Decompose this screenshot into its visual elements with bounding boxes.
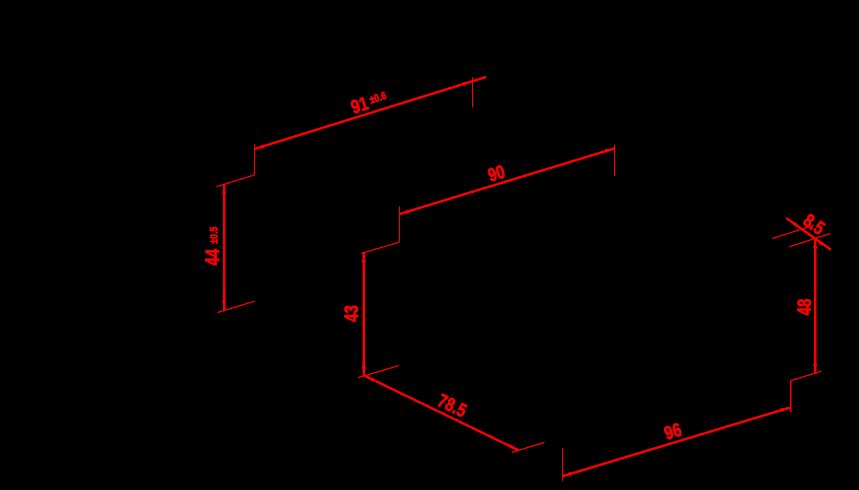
dimension 48 line xyxy=(814,239,816,373)
arrowhead 91 left xyxy=(254,144,264,151)
dimension 78.5 line xyxy=(365,376,518,450)
arrowhead 96 right xyxy=(780,406,790,413)
dimension 90 line xyxy=(400,149,615,215)
extension line 90 left vertical xyxy=(399,207,401,242)
arrowhead 8.5 lower outside xyxy=(814,237,824,246)
extension line 96 right vertical xyxy=(790,381,792,412)
arrowhead 48 top xyxy=(813,239,817,249)
dimension 43 line xyxy=(363,253,365,376)
extension line jog 90-43 diagonal xyxy=(362,242,400,253)
extension line jog 91-44 diagonal xyxy=(217,175,255,187)
arrowhead 43 top xyxy=(362,252,366,262)
arrowhead 8.5 upper outside xyxy=(793,222,803,231)
arrowhead 90 left xyxy=(399,209,409,216)
extension line 43 bottom / 78.5 left diagonal xyxy=(358,366,399,378)
svg-text:±0.5: ±0.5 xyxy=(209,226,221,243)
arrowhead 78.5 left xyxy=(364,374,374,382)
arrowhead 91 right xyxy=(463,79,473,86)
dimension 8.5 line xyxy=(786,218,831,250)
dimension 96 line xyxy=(563,408,790,477)
arrowhead 48 bottom xyxy=(813,364,817,374)
arrowhead 43 bottom xyxy=(362,367,366,377)
extension line 91 left vertical xyxy=(254,144,256,175)
svg-text:43: 43 xyxy=(340,305,362,322)
extension line 48 top / 8.5 lower diagonal xyxy=(789,234,830,247)
extension line 44 bottom diagonal xyxy=(218,301,255,312)
svg-text:44: 44 xyxy=(201,248,223,265)
extension line 8.5 upper diagonal xyxy=(772,225,814,238)
svg-text:48: 48 xyxy=(793,298,815,315)
arrowhead 78.5 right xyxy=(509,444,519,452)
extension line 91 right vertical xyxy=(471,77,473,108)
arrowhead 96 left xyxy=(562,472,572,479)
extension line 78.5 right diagonal xyxy=(512,442,545,452)
arrowhead 44 top xyxy=(222,184,226,194)
extension line 96 left vertical xyxy=(561,449,563,481)
extension line 90 right vertical xyxy=(614,145,616,176)
extension line jog 96-48 diagonal xyxy=(791,371,822,381)
arrowhead 44 bottom xyxy=(222,301,226,311)
dimension 91 line xyxy=(255,77,486,149)
arrowhead 90 right xyxy=(605,146,615,153)
dimension 44 line xyxy=(223,184,225,310)
